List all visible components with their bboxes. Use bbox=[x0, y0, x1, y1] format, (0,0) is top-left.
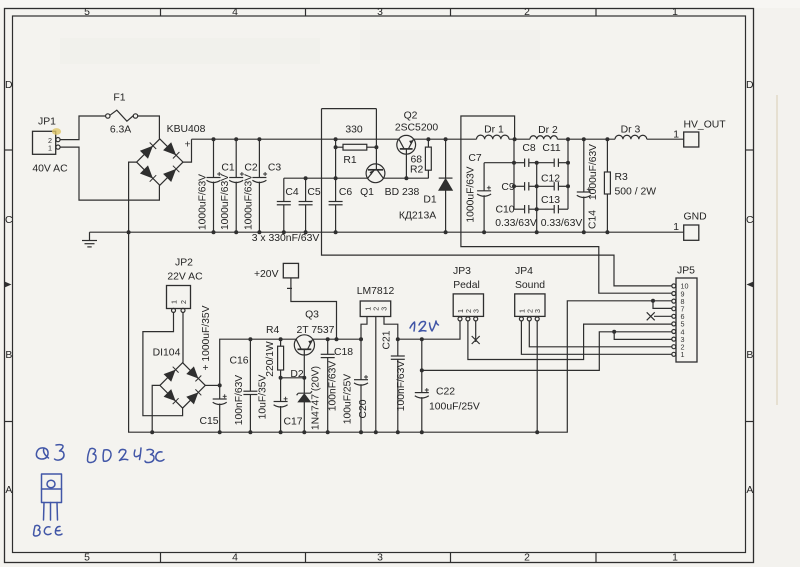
svg-text:C8: C8 bbox=[522, 143, 536, 154]
svg-text:C6: C6 bbox=[339, 187, 353, 198]
connector JP4 bbox=[515, 294, 545, 321]
svg-text:Q3: Q3 bbox=[305, 310, 319, 321]
wire JP5 pin6 stub bbox=[654, 315, 672, 317]
svg-text:C21: C21 bbox=[381, 330, 392, 349]
wire bridge plus to bus bbox=[183, 139, 192, 162]
junction dots top bus bbox=[212, 137, 610, 141]
wire JP4 pin2 to JP5 pin2 bbox=[529, 321, 672, 347]
capacitor C3 bbox=[252, 139, 267, 232]
svg-text:C: C bbox=[746, 215, 754, 226]
bridge rectifier DI104 bbox=[160, 363, 205, 408]
capacitor C8 bbox=[514, 159, 537, 167]
svg-text:C: C bbox=[5, 215, 13, 226]
svg-text:1N4747 (20V): 1N4747 (20V) bbox=[310, 366, 321, 430]
svg-text:3: 3 bbox=[472, 309, 481, 313]
svg-text:3: 3 bbox=[380, 307, 389, 311]
wire HV sense loop around filter bbox=[461, 116, 672, 293]
svg-text:C17: C17 bbox=[283, 417, 302, 428]
svg-text:B: B bbox=[5, 350, 12, 361]
svg-text:C12: C12 bbox=[541, 174, 560, 185]
svg-text:A: A bbox=[746, 485, 753, 496]
svg-text:C2: C2 bbox=[244, 163, 258, 174]
svg-text:5: 5 bbox=[84, 7, 90, 18]
svg-text:40V AC: 40V AC bbox=[32, 164, 68, 175]
zener diode D2 1N4747 bbox=[297, 391, 312, 432]
capacitor C17 bbox=[274, 378, 288, 432]
capacitor C15 bbox=[213, 385, 227, 432]
X mark JP5 pin6 bbox=[647, 312, 655, 320]
svg-text:C1: C1 bbox=[221, 163, 235, 174]
svg-text:Dr 1: Dr 1 bbox=[484, 125, 504, 136]
svg-text:LM7812: LM7812 bbox=[357, 286, 395, 297]
inductor Dr1 bbox=[477, 135, 509, 139]
wire fuse to bridge top bbox=[138, 116, 160, 139]
wire LM7812 pin2 lead bbox=[375, 317, 377, 433]
capacitor C12 bbox=[537, 182, 568, 190]
svg-text:C16: C16 bbox=[229, 356, 248, 367]
capacitor C20 bbox=[354, 339, 368, 432]
svg-text:Pedal: Pedal bbox=[453, 280, 480, 291]
connector GND bbox=[684, 225, 699, 240]
svg-text:D1: D1 bbox=[423, 195, 437, 206]
capacitor C10 bbox=[514, 205, 537, 213]
svg-text:100uF/25V: 100uF/25V bbox=[343, 374, 354, 425]
bridge rectifier KBU408 bbox=[137, 139, 183, 185]
svg-text:JP4: JP4 bbox=[515, 266, 533, 277]
transistor Q2 2SC5200 bbox=[397, 135, 416, 154]
svg-text:Sound: Sound bbox=[515, 280, 545, 291]
wire R4 node to D2 bbox=[281, 377, 305, 379]
resistor R2 68 bbox=[425, 139, 431, 178]
svg-text:R2: R2 bbox=[410, 165, 424, 176]
svg-text:C13: C13 bbox=[541, 195, 560, 206]
svg-text:C22: C22 bbox=[436, 387, 455, 398]
wire ladder left rail bbox=[513, 139, 515, 209]
junction dot pin3 branch bbox=[612, 330, 616, 334]
svg-text:F1: F1 bbox=[113, 93, 125, 104]
svg-text:3: 3 bbox=[377, 553, 383, 564]
wire Q1 base vertical bbox=[375, 109, 377, 170]
svg-text:2T 7537: 2T 7537 bbox=[297, 325, 335, 336]
connector JP1 bbox=[33, 131, 61, 154]
svg-text:1000uF/63V: 1000uF/63V bbox=[243, 174, 254, 230]
frame left centre arrow bbox=[5, 282, 12, 288]
svg-text:1: 1 bbox=[681, 350, 685, 359]
regulator LM7812 bbox=[360, 301, 391, 317]
wire R1 node vertical bbox=[335, 139, 337, 178]
svg-text:C3: C3 bbox=[268, 163, 282, 174]
junction dots bottom rail bbox=[150, 430, 539, 434]
wire +20V to rail bbox=[291, 278, 337, 339]
transistor Q3 2T7537 bbox=[294, 335, 314, 355]
resistor R1 330 bbox=[336, 144, 377, 150]
capacitor C11 bbox=[537, 159, 568, 167]
svg-text:JP2: JP2 bbox=[175, 258, 193, 269]
capacitor C13 bbox=[537, 205, 568, 213]
svg-text:JP5: JP5 bbox=[677, 266, 695, 277]
frame bottom ticks bbox=[161, 553, 597, 563]
svg-text:+20V: +20V bbox=[254, 269, 279, 280]
svg-text:1: 1 bbox=[673, 130, 679, 141]
svg-text:C7: C7 bbox=[468, 153, 482, 164]
handwritten BCE blue bbox=[34, 525, 63, 536]
capacitor C21 bbox=[391, 339, 405, 432]
svg-text:0.33/63V: 0.33/63V bbox=[495, 218, 537, 229]
capacitor C6 bbox=[329, 178, 343, 232]
svg-text:6.3A: 6.3A bbox=[110, 125, 131, 136]
wire feedback sense line to JP5 pin10 bbox=[322, 109, 672, 286]
wire ground rail bbox=[90, 231, 684, 233]
wire Q2 base down bbox=[405, 149, 407, 178]
svg-text:C11: C11 bbox=[542, 143, 561, 154]
svg-text:KBU408: KBU408 bbox=[167, 124, 206, 135]
connector +20V bbox=[283, 263, 298, 278]
capacitor C22 bbox=[415, 339, 429, 432]
svg-text:+: + bbox=[185, 140, 191, 151]
wire JP2 pin1 to bridge bottom bbox=[143, 312, 183, 415]
frame bottom zone numbers bbox=[84, 553, 678, 564]
svg-text:HV_OUT: HV_OUT bbox=[684, 120, 727, 131]
svg-text:R1: R1 bbox=[343, 155, 357, 166]
capacitor C9 bbox=[514, 182, 537, 190]
svg-text:JP3: JP3 bbox=[453, 266, 471, 277]
capacitor C2 bbox=[229, 139, 244, 232]
handwritten transistor sketch blue bbox=[42, 474, 62, 520]
svg-text:КД213А: КД213А bbox=[399, 211, 436, 222]
inductor Dr2 bbox=[530, 136, 558, 139]
svg-text:2: 2 bbox=[524, 553, 530, 564]
svg-text:JP1: JP1 bbox=[38, 117, 56, 128]
svg-text:D: D bbox=[746, 80, 754, 91]
svg-text:C4: C4 bbox=[285, 187, 299, 198]
wire +12V branch to JP5 pin4 bbox=[422, 332, 672, 371]
connector HV_OUT bbox=[684, 132, 699, 147]
svg-text:100nF/63V: 100nF/63V bbox=[396, 361, 407, 412]
wire JP4 pin1 to JP5 pin1 bbox=[521, 321, 671, 354]
resistor R4 bbox=[278, 339, 284, 378]
svg-text:5: 5 bbox=[84, 553, 90, 564]
svg-text:100nF/63V: 100nF/63V bbox=[328, 361, 339, 412]
svg-text:Dr 2: Dr 2 bbox=[538, 125, 558, 136]
junction dots ground rail bbox=[127, 230, 610, 234]
junction dots lower rails bbox=[218, 337, 424, 387]
connector JP3 bbox=[453, 294, 483, 321]
svg-text:10uF/35V: 10uF/35V bbox=[257, 375, 268, 420]
frame top ticks bbox=[161, 9, 597, 17]
svg-text:4: 4 bbox=[232, 553, 238, 564]
capacitor C18 bbox=[321, 339, 335, 432]
svg-text:100nF/63V: 100nF/63V bbox=[234, 375, 245, 426]
junction dots R1 leads bbox=[334, 145, 379, 149]
ground earth symbol bbox=[82, 232, 97, 247]
svg-text:D: D bbox=[5, 80, 13, 91]
svg-text:4: 4 bbox=[232, 7, 238, 18]
wire JP5 pin3 branch bbox=[614, 332, 672, 340]
capacitor C7 bbox=[477, 163, 491, 233]
handwritten Q3 blue bbox=[36, 445, 64, 460]
capacitor C14 bbox=[577, 139, 591, 232]
wire JP3 pin3 stub bbox=[475, 321, 477, 342]
svg-text:R3: R3 bbox=[615, 172, 629, 183]
svg-text:2SC5200: 2SC5200 bbox=[395, 123, 439, 134]
svg-text:BD 238: BD 238 bbox=[385, 187, 420, 198]
svg-text:C18: C18 bbox=[334, 347, 353, 358]
X mark JP3 pin3 bbox=[472, 336, 480, 344]
wire +12V rail bbox=[398, 321, 460, 339]
svg-text:500 / 2W: 500 / 2W bbox=[615, 187, 657, 198]
svg-text:3: 3 bbox=[533, 309, 542, 313]
frame right ticks bbox=[746, 150, 754, 422]
frame top zone numbers bbox=[84, 7, 678, 18]
svg-text:220/1W: 220/1W bbox=[265, 341, 276, 377]
wire ladder right rail bbox=[567, 139, 569, 209]
svg-text:D2: D2 bbox=[290, 369, 304, 380]
svg-text:0.33/63V: 0.33/63V bbox=[541, 218, 583, 229]
fuse F1 bbox=[106, 110, 138, 121]
frame right zone letters bbox=[746, 80, 754, 496]
svg-text:1: 1 bbox=[673, 222, 679, 233]
svg-text:100uF/25V: 100uF/25V bbox=[429, 402, 480, 413]
svg-text:3 x 330nF/63V: 3 x 330nF/63V bbox=[252, 233, 320, 244]
svg-text:C20: C20 bbox=[358, 399, 369, 418]
wire JP1 pin1 to bridge bottom bbox=[60, 147, 159, 200]
svg-text:GND: GND bbox=[684, 212, 707, 223]
wire C15 riser and +20V rail bbox=[220, 339, 363, 385]
handwritten BD 243C blue bbox=[88, 448, 165, 463]
svg-text:C5: C5 bbox=[307, 187, 321, 198]
capacitor C4 bbox=[277, 178, 291, 232]
svg-text:Q2: Q2 bbox=[404, 111, 418, 122]
capacitor C5 bbox=[299, 178, 313, 232]
svg-text:1: 1 bbox=[672, 7, 678, 18]
connector JP2 bbox=[167, 286, 191, 313]
wire Q3 base down bbox=[303, 349, 305, 393]
svg-text:1000uF/63V: 1000uF/63V bbox=[588, 144, 599, 200]
svg-text:A: A bbox=[5, 485, 12, 496]
frame left ticks bbox=[5, 150, 13, 422]
wire JP4 pin3 to ground rail bbox=[536, 321, 538, 432]
handwritten 12V blue bbox=[410, 321, 439, 332]
svg-text:C10: C10 bbox=[495, 205, 514, 216]
diode D1 bbox=[439, 139, 453, 232]
resistor R3 bbox=[604, 139, 610, 232]
wire DI104 minus to bottom rail bbox=[152, 385, 160, 432]
svg-text:22V AC: 22V AC bbox=[167, 272, 203, 283]
wire DI104 plus to C15 node bbox=[205, 384, 219, 386]
frame right centre arrow bbox=[747, 282, 754, 288]
capacitor C1 bbox=[207, 139, 222, 232]
svg-text:Dr 3: Dr 3 bbox=[621, 125, 641, 136]
yellow highlighter mark on JP1 bbox=[52, 128, 61, 135]
wire LM7812 pin3 lead bbox=[384, 317, 398, 340]
svg-text:DI104: DI104 bbox=[153, 348, 181, 359]
wire JP1 pin2 to fuse bbox=[60, 116, 106, 140]
wire JP5 pin7 branch bbox=[653, 301, 672, 309]
transistor Q1 BD238 bbox=[366, 164, 385, 183]
svg-text:1: 1 bbox=[672, 553, 678, 564]
svg-text:1000uF/63V: 1000uF/63V bbox=[220, 174, 231, 230]
svg-text:R4: R4 bbox=[266, 325, 280, 336]
svg-text:B: B bbox=[746, 350, 753, 361]
wire base drive top link bbox=[322, 108, 377, 110]
wire ladder middle rail bbox=[536, 163, 538, 233]
svg-text:2: 2 bbox=[524, 7, 530, 18]
svg-text:+ 1000uF/35V: + 1000uF/35V bbox=[201, 305, 212, 370]
svg-text:2: 2 bbox=[179, 300, 188, 304]
junction dots ladder bbox=[512, 161, 570, 212]
wire LM7812 pin1 lead bbox=[361, 317, 367, 340]
svg-text:1: 1 bbox=[48, 144, 52, 153]
junction dots lower rail bbox=[304, 176, 409, 180]
wire lower rail C4-C6 to R2 bbox=[284, 177, 429, 179]
wire ground link to lower section bbox=[129, 232, 672, 432]
wire JP3 pin2 to JP5 pin5 bbox=[468, 321, 672, 360]
svg-text:Q1: Q1 bbox=[360, 187, 374, 198]
svg-text:C14: C14 bbox=[588, 210, 599, 229]
capacitor C16 bbox=[243, 339, 257, 432]
svg-text:1000uF/63V: 1000uF/63V bbox=[466, 166, 477, 222]
wire main positive bus bbox=[192, 138, 684, 140]
svg-text:1000uF/63V: 1000uF/63V bbox=[198, 174, 209, 230]
svg-text:C15: C15 bbox=[199, 416, 218, 427]
wire JP2 pin2 to bridge top bbox=[182, 312, 184, 362]
frame left zone letters bbox=[5, 80, 13, 496]
svg-text:3: 3 bbox=[377, 7, 383, 18]
svg-text:330: 330 bbox=[345, 125, 363, 136]
connector JP5 bbox=[672, 278, 697, 362]
inductor Dr3 bbox=[615, 135, 647, 139]
wire bridge minus down to ground rail bbox=[129, 162, 137, 232]
wire C7 top to ladder bbox=[484, 162, 514, 164]
junction dot pin7 branch bbox=[651, 299, 655, 303]
svg-text:1: 1 bbox=[170, 300, 179, 304]
